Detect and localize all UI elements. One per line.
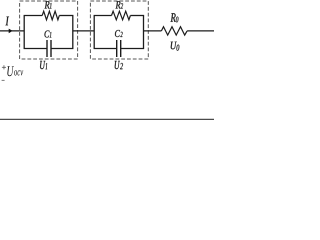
wire: link from RC pair 2 to R0	[144, 30, 162, 32]
wire: top branch left of R1	[24, 15, 43, 17]
wire: bottom branch left of C1	[24, 48, 47, 50]
label Uocv: minus polarity mark	[2, 79, 5, 81]
current arrow	[9, 29, 13, 34]
label C1	[45, 31, 52, 38]
label Uocv (open-circuit voltage)	[7, 66, 23, 76]
resistor R2	[112, 11, 131, 20]
wire: output lead from R0 to right edge	[187, 30, 214, 32]
wire: top branch right of R1	[59, 15, 73, 17]
label R1	[45, 1, 52, 8]
RC pair 2 dashed enclosure	[90, 1, 148, 59]
wire: top branch left of R2	[94, 15, 112, 17]
label U2 (voltage across RC pair 2)	[115, 61, 123, 69]
wire: bottom branch left of C2	[94, 48, 117, 50]
capacitor C1 left plate	[46, 40, 48, 57]
node D: right bus of RC pair 2	[143, 16, 145, 49]
label U0 (voltage across R0)	[171, 42, 180, 51]
resistor R0	[161, 27, 187, 35]
node A: left bus of RC pair 1	[23, 16, 25, 49]
label C2	[115, 30, 123, 37]
label Uocv: plus polarity mark	[2, 66, 6, 68]
wire: link between RC pair 1 and RC pair 2	[73, 30, 94, 32]
label R0	[171, 13, 179, 22]
wire: input lead from left edge to node A	[0, 30, 24, 32]
bottom rule line	[0, 118, 214, 120]
wire: bottom branch right of C2	[121, 48, 144, 50]
RC pair 1 dashed enclosure	[20, 1, 78, 59]
node B: right bus of RC pair 1	[72, 16, 74, 49]
resistor R1	[42, 11, 59, 20]
wire: bottom branch right of C1	[51, 48, 73, 50]
wire: top branch right of R2	[130, 15, 144, 17]
label U1 (voltage across RC pair 1)	[40, 61, 47, 69]
label R2	[116, 1, 124, 8]
capacitor C1 right plate	[50, 40, 52, 57]
node C: left bus of RC pair 2	[93, 16, 95, 49]
current label I	[6, 17, 10, 26]
capacitor C2 left plate	[116, 40, 118, 57]
capacitor C2 right plate	[120, 40, 122, 57]
